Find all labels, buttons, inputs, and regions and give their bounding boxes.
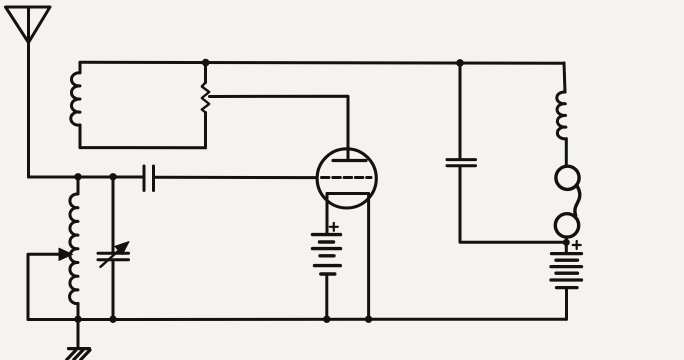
ground: [67, 320, 90, 360]
triode V1 envelope: [317, 149, 376, 208]
wire filament left leg: [326, 194, 329, 235]
node A battery bus junction: [323, 316, 330, 323]
battery BA + label: [330, 223, 338, 231]
wire plate tap: [210, 96, 349, 160]
wire filament right leg: [367, 194, 370, 320]
node bus-ground junction: [74, 316, 81, 323]
wire antenna lead: [27, 43, 30, 178]
node filament right leg bus junction: [365, 316, 372, 323]
node grid-varcap junction: [109, 173, 116, 180]
wire bottom bus: [28, 318, 567, 321]
coil L2 tickler (zigzag): [202, 63, 209, 148]
battery BB + label: [573, 241, 581, 249]
capacitor C1: [144, 166, 154, 191]
triode V1 plate: [333, 159, 366, 162]
variable capacitor C3: [98, 177, 129, 319]
node bus-varcap junction: [109, 316, 116, 323]
node top loop junction: [202, 59, 210, 67]
wire B battery to bus: [565, 288, 568, 320]
wire top bus: [80, 61, 564, 65]
battery BA (A battery): [313, 235, 341, 274]
wire loop bottom edge: [80, 146, 206, 149]
coil L4 output choke: [557, 63, 566, 166]
triode V1 filament: [327, 192, 369, 195]
wire A battery to bus: [325, 274, 328, 319]
antenna: [6, 7, 51, 43]
capacitor C2: [447, 63, 563, 242]
node top bus / C2 junction: [456, 59, 464, 67]
node B+ junction: [563, 239, 570, 246]
wire B battery top: [565, 242, 568, 253]
wire grid line right: [154, 176, 316, 179]
wire coil tap with arrow: [28, 248, 73, 319]
coil L3 tuning coil: [70, 177, 78, 319]
wire grid line left: [29, 176, 144, 179]
headphones: [555, 166, 580, 242]
coil L1 transformer primary: [71, 63, 80, 148]
battery BB (B battery): [551, 254, 582, 288]
triode V1 grid (dashed): [322, 176, 372, 179]
node grid-coil junction: [74, 173, 81, 180]
